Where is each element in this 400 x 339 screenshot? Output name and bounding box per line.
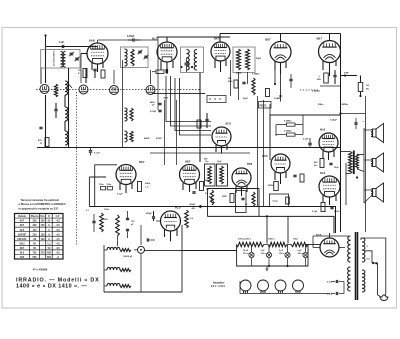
- svg-text:125 α: 125 α: [298, 253, 304, 255]
- pilot lamp LP4: [303, 245, 308, 258]
- svg-text:0,1MΩα: 0,1MΩα: [252, 74, 260, 76]
- small parts mid: [234, 80, 246, 88]
- svg-text:0,25µF: 0,25µF: [330, 120, 338, 122]
- capacitor C18: [289, 74, 292, 88]
- note under table: [32, 268, 48, 272]
- svg-text:lampadine: lampadine: [213, 283, 225, 285]
- power transformer T6 primary: [348, 267, 351, 291]
- tube U6 pins: [216, 144, 227, 154]
- svg-text:6AF/6F: 6AF/6F: [18, 233, 27, 236]
- ground arrow: [266, 266, 269, 270]
- svg-text:550: 550: [33, 256, 38, 259]
- parts below U13: [321, 203, 334, 212]
- resistor R7 arrow: [344, 73, 349, 75]
- wire rotor to heater: [145, 249, 183, 251]
- wire ballast joins: [264, 244, 291, 246]
- osc coupling parts: [197, 113, 209, 128]
- labels below U13: [312, 211, 340, 213]
- wire osc col: [64, 95, 66, 131]
- main bus wire (chassis): [37, 147, 341, 149]
- wire plug drop: [378, 294, 386, 297]
- capacitor C20 0.1uF: [89, 148, 101, 156]
- svg-text:0,1µF: 0,1µF: [312, 211, 318, 213]
- wire dial lamps top: [239, 281, 241, 294]
- labels left of U7: [99, 184, 113, 190]
- svg-text:0,05µF: 0,05µF: [150, 111, 157, 113]
- capacitor C12: [150, 110, 162, 113]
- junction dots T1: [180, 66, 193, 68]
- svg-text:50pF: 50pF: [243, 98, 249, 100]
- svg-text:6AT/2AF: 6AT/2AF: [17, 238, 27, 241]
- tube U8 6B7: [180, 160, 200, 185]
- svg-text:100: 100: [41, 224, 46, 227]
- label above U12: [330, 118, 358, 129]
- wire lamp stubs: [252, 258, 306, 266]
- wire U4 pin drops: [274, 70, 282, 102]
- svg-text:1050 α: 1050 α: [268, 239, 275, 241]
- svg-text:-4,5: -4,5: [56, 252, 61, 255]
- tuning capacitor section CV3: [110, 86, 119, 95]
- wire r20 corners: [276, 115, 303, 136]
- capacitor C15: [147, 238, 155, 241]
- terminal strip: [207, 96, 226, 103]
- band coil L9: [107, 247, 131, 251]
- trimmer C2: [75, 57, 80, 61]
- wire band vertical: [134, 250, 141, 292]
- svg-text:6L6: 6L6: [20, 252, 25, 255]
- tube U2 pins: [161, 61, 173, 74]
- svg-text:0,05µF: 0,05µF: [127, 35, 135, 38]
- capacitor C16 0.1: [327, 280, 344, 284]
- svg-text:750α: 750α: [293, 239, 299, 241]
- svg-text:230: 230: [33, 224, 38, 227]
- svg-text:~: ~: [363, 120, 365, 124]
- svg-text:1Ω: 1Ω: [366, 85, 369, 87]
- svg-text:0,1µF: 0,1µF: [303, 139, 309, 141]
- svg-text:5,1Pα: 5,1Pα: [334, 211, 340, 213]
- wire corner b: [89, 177, 106, 207]
- piezo jack box: [259, 102, 272, 109]
- junction dots ballast: [268, 265, 289, 267]
- svg-text:-4,5: -4,5: [56, 229, 61, 232]
- wire antenna down: [45, 47, 47, 84]
- speaker wires: [364, 128, 371, 203]
- tube U9 pins: [236, 185, 247, 196]
- detector shield box: [208, 189, 260, 217]
- svg-text:-4,5: -4,5: [56, 233, 61, 236]
- svg-text:100: 100: [41, 220, 46, 223]
- svg-text:100: 100: [41, 238, 46, 241]
- power transformer T6 secondary: [362, 270, 365, 292]
- labels near piezo: [243, 98, 281, 100]
- tube U13 6L6 lower: [319, 171, 340, 197]
- tube U4 pins: [275, 61, 286, 74]
- svg-text:6K7: 6K7: [214, 37, 220, 41]
- parts below U8: [192, 180, 209, 193]
- wire heater vertical 2: [287, 216, 289, 243]
- wire u12 top: [340, 114, 342, 134]
- stepped wire 1: [166, 76, 211, 122]
- wire rect top: [313, 236, 349, 248]
- oscillator coil L4: [65, 107, 68, 121]
- svg-text:K: K: [48, 215, 50, 218]
- svg-text:-4,5: -4,5: [56, 242, 61, 245]
- svg-text:6L6: 6L6: [320, 128, 326, 132]
- tube U12 6L6 upper: [319, 128, 338, 153]
- svg-text:6B7: 6B7: [185, 160, 191, 164]
- note text line1: [21, 198, 60, 202]
- resistor R12: [266, 89, 270, 97]
- band coil L11: [107, 283, 131, 287]
- labels left avc: [86, 208, 109, 212]
- svg-text:Tensioni misurate fra elettrod: Tensioni misurate fra elettrodi: [21, 198, 60, 202]
- antenna coil L2: [63, 52, 65, 68]
- tube U11 6C5: [161, 206, 181, 232]
- wire 6A8 grid drop: [80, 54, 82, 84]
- wire h153: [150, 152, 250, 154]
- power transformer core: [356, 232, 358, 300]
- detector inner loop: [236, 191, 247, 213]
- svg-text:405: 405: [47, 252, 52, 255]
- wire 6L7 top: [157, 37, 230, 42]
- IF transformer T3 box A: [205, 161, 216, 186]
- labels mid2: [228, 77, 233, 83]
- label 650: [204, 159, 208, 161]
- wire T3 top: [199, 155, 201, 162]
- wire left vertical a: [68, 68, 70, 148]
- coil block box: [41, 50, 80, 69]
- svg-text:270: 270: [41, 252, 46, 255]
- svg-text:230: 230: [33, 233, 38, 236]
- arrow on bus: [199, 205, 203, 208]
- stepped wire 4: [180, 78, 212, 135]
- wire T4 conn: [341, 152, 365, 206]
- ballast enclosure: [237, 245, 308, 267]
- capacitor C21: [166, 69, 168, 73]
- labels mid1: [236, 73, 260, 76]
- wire band top: [140, 225, 142, 245]
- svg-text:150α: 150α: [107, 184, 112, 186]
- svg-text:20Kα: 20Kα: [145, 183, 151, 185]
- parts below U9: [230, 192, 255, 206]
- wire mid verticals 2: [122, 60, 124, 148]
- tube U6 6C5: [212, 122, 231, 147]
- svg-text:1MΩ: 1MΩ: [103, 219, 108, 221]
- pilot lamp LP1: [243, 245, 254, 258]
- tube U7 6K7: [116, 160, 145, 185]
- IF T3 primary: [208, 166, 212, 184]
- svg-text:10000 pF: 10000 pF: [123, 256, 133, 258]
- wire U5 bottom join: [320, 85, 341, 87]
- tube U1 pins: [92, 63, 103, 72]
- IF T3 secondary: [220, 166, 224, 184]
- wire left vertical c: [45, 95, 47, 148]
- wire right mid h: [339, 112, 365, 114]
- tube U14 wires: [313, 233, 345, 248]
- IF T2 secondary: [246, 49, 250, 70]
- resistor R16: [185, 210, 194, 228]
- antenna terminal node: [44, 34, 46, 46]
- wire avc branch: [341, 74, 358, 76]
- wire heater vertical 1: [266, 216, 268, 243]
- title line1: [16, 278, 100, 284]
- label bk: [318, 104, 349, 106]
- svg-text:STB: STB: [344, 73, 349, 75]
- trimmer C8: [144, 55, 149, 59]
- dial lamp LD3: [275, 280, 286, 293]
- resistor R5 zigzag: [131, 49, 134, 66]
- trimmer C7: [138, 50, 143, 54]
- svg-text:MΩ: MΩ: [317, 79, 321, 81]
- svg-text:S.G.: S.G.: [40, 215, 45, 218]
- rf coil L6: [125, 49, 128, 66]
- svg-text:6 µF: 6 µF: [59, 41, 65, 44]
- capacitor C11: [150, 102, 162, 107]
- antenna coil L1: [61, 52, 63, 68]
- resistor R8 1M: [358, 76, 369, 98]
- tube U9 6T8: [232, 162, 253, 187]
- tuning capacitor section CV2: [79, 85, 88, 94]
- resistor R13 zz: [252, 78, 255, 95]
- svg-text:5Y3: 5Y3: [316, 233, 322, 237]
- wire T2 coil drops: [239, 72, 248, 100]
- svg-text:25µF: 25µF: [334, 167, 339, 169]
- svg-text:0,1µα: 0,1µα: [273, 201, 279, 203]
- wire y93: [152, 93, 205, 95]
- svg-text:6A5: 6A5: [262, 154, 268, 158]
- dotted avc line: [300, 89, 318, 91]
- resistor R23 flat: [152, 70, 164, 73]
- wire corner a: [95, 165, 117, 207]
- tube U4 6Q7: [265, 38, 291, 63]
- resistor R6 1M: [317, 73, 328, 83]
- resistor R3 zigzag: [54, 84, 57, 97]
- wire osc bottom: [41, 147, 86, 149]
- wire cap to 6L7: [98, 40, 159, 44]
- label 8MA: [312, 91, 321, 93]
- svg-text:6,3 V - 0,15 A: 6,3 V - 0,15 A: [211, 285, 225, 288]
- svg-text:50Kα: 50Kα: [318, 104, 324, 106]
- svg-text:550: 550: [47, 256, 52, 259]
- wire sec to plug: [361, 238, 386, 295]
- padder capacitor C4: [54, 103, 57, 118]
- wire U4 top: [280, 34, 282, 42]
- wire box left drop: [40, 68, 42, 84]
- tube U5 6B7: [317, 37, 341, 63]
- capacitor C17 0.1: [327, 292, 344, 296]
- svg-text:700: 700: [33, 252, 38, 255]
- ballast label1: [238, 239, 252, 241]
- svg-text:2MΩα: 2MΩα: [268, 185, 275, 187]
- svg-text:in apparecchio eseguite su E.P: in apparecchio eseguite su E.P.: [19, 206, 59, 210]
- IF transformer T2 box: [233, 47, 255, 73]
- svg-text:-47 e 450896: -47 e 450896: [32, 268, 48, 272]
- pilot lamp LP3: [279, 245, 290, 258]
- speaker SP2: [371, 153, 384, 172]
- IF T1 secondary: [194, 50, 197, 71]
- label 500pF: [190, 204, 197, 210]
- svg-text:50pF: 50pF: [256, 58, 262, 60]
- oscillator coil L3: [65, 81, 72, 95]
- resistor R1 15K: [78, 69, 87, 78]
- dial lamp LD4: [293, 280, 304, 293]
- speaker SP3: [371, 183, 384, 202]
- svg-text:0,1µF: 0,1µF: [117, 194, 123, 196]
- capacitor 6uF antenna: [59, 41, 65, 48]
- svg-text:0,5MΩα: 0,5MΩα: [340, 104, 349, 106]
- wire antenna to input coils: [46, 46, 98, 48]
- resistor R9 zz: [130, 108, 133, 121]
- svg-text:5Z3: 5Z3: [20, 256, 25, 259]
- dial lamp LD2: [258, 280, 269, 293]
- third bus wire: [208, 216, 335, 233]
- potentiometer R22: [205, 190, 215, 205]
- capacitor C9 label: [256, 58, 262, 60]
- svg-text:0,5MΩα: 0,5MΩα: [284, 131, 292, 133]
- stepped wire 2: [171, 76, 212, 126]
- capacitor C10: [333, 70, 336, 84]
- note text line3: [19, 206, 59, 210]
- left avc parts: [92, 213, 103, 232]
- ballast label3: [293, 239, 299, 241]
- tube U1 6A8: [87, 39, 108, 65]
- svg-text:-4,5: -4,5: [56, 220, 61, 223]
- svg-text:6L5: 6L5: [20, 229, 25, 232]
- output transformer T4: [349, 151, 359, 175]
- svg-text:100: 100: [41, 233, 46, 236]
- svg-text:78 µF: 78 µF: [243, 250, 249, 252]
- wire dial lamps bottom: [240, 291, 330, 294]
- wire B+ vertical: [340, 34, 342, 233]
- 6A5 cathode box: [270, 194, 290, 207]
- svg-text:6A7: 6A7: [20, 220, 25, 223]
- resistor R14 20K: [138, 182, 152, 192]
- svg-text:6K7: 6K7: [139, 160, 145, 164]
- resistor R11 zz: [130, 131, 133, 142]
- wire left vertical b: [85, 68, 87, 83]
- trimmer C1: [69, 52, 74, 56]
- svg-text:1075+1250 α: 1075+1250 α: [238, 239, 252, 241]
- capacitor C13 label: [117, 194, 123, 196]
- IF transformer T3 box B: [217, 161, 228, 186]
- tuning capacitor section CV4: [146, 86, 155, 95]
- labels below U9: [222, 196, 248, 206]
- svg-text:1 w: 1 w: [145, 187, 149, 189]
- pilot lamp LP4 labels: [298, 250, 304, 255]
- capacitor C6 0.05uF: [127, 35, 140, 42]
- resistor R21 box: [284, 131, 295, 137]
- label tilde: [363, 120, 365, 124]
- ballast resistor RB1: [236, 242, 264, 246]
- dial lamp LD1: [240, 280, 251, 293]
- volume pot R17: [116, 215, 120, 246]
- svg-text:490Ω: 490Ω: [144, 137, 150, 140]
- coil L8: [125, 131, 128, 142]
- voltage table: [15, 214, 64, 260]
- svg-text:-4,5: -4,5: [56, 238, 61, 241]
- switch rotor: [138, 246, 145, 253]
- IF transformer T1 box: [181, 47, 204, 73]
- svg-text:0,5MΩα: 0,5MΩα: [312, 91, 321, 93]
- svg-text:6K7: 6K7: [20, 247, 25, 250]
- svg-text:6B7: 6B7: [265, 38, 271, 42]
- svg-text:470Ω: 470Ω: [156, 137, 162, 140]
- svg-text:110: 110: [33, 229, 38, 232]
- wire band to right: [104, 225, 182, 292]
- wire cap stubs: [331, 282, 344, 294]
- tube U7 pins: [120, 182, 132, 193]
- svg-text:450pF: 450pF: [146, 212, 153, 215]
- IF T2 primary: [237, 49, 241, 70]
- wire mid verticals right: [258, 96, 271, 207]
- wire mid verticals group: [165, 100, 177, 165]
- trimmer C22: [185, 58, 189, 72]
- tube U14 5Y3: [316, 233, 339, 257]
- mains plug P1: [380, 295, 388, 301]
- ballast resistor RB2: [268, 242, 287, 246]
- tuning capacitor section CV1: [40, 85, 49, 94]
- svg-text:Valvole: Valvole: [18, 216, 27, 218]
- band label vertical: [53, 49, 56, 66]
- svg-text:1MΩ: 1MΩ: [222, 196, 227, 198]
- svg-text:Ant 550-1600 kc: Ant 550-1600 kc: [53, 49, 56, 66]
- resistor R2 box: [101, 70, 105, 78]
- power transformer T5 secondary: [362, 238, 365, 262]
- wire ballast to rect: [305, 244, 320, 246]
- tube U3 6K7: [211, 37, 230, 62]
- svg-text:-4,5: -4,5: [56, 247, 61, 250]
- svg-text:6C5: 6C5: [226, 122, 232, 126]
- wire top bus right: [220, 34, 341, 43]
- resistor R15: [268, 182, 278, 191]
- resistor R20 box: [284, 121, 295, 127]
- transformer labels: [367, 246, 371, 261]
- svg-text:6K7: 6K7: [20, 224, 25, 227]
- svg-text:-4,5: -4,5: [56, 224, 61, 227]
- resistor R10 labels: [144, 137, 162, 140]
- power transformer T5 primary: [348, 236, 351, 262]
- tube U11 pins: [165, 229, 178, 242]
- oscillator coil L5: [65, 131, 68, 145]
- svg-text:0,5MΩ: 0,5MΩ: [274, 98, 281, 100]
- coil L7: [125, 108, 128, 121]
- resistor R4 470: [38, 138, 49, 147]
- ballast label2: [268, 239, 275, 241]
- svg-text:Placca: Placca: [31, 215, 39, 218]
- svg-text:500pF: 500pF: [190, 204, 197, 206]
- label 50uF: [164, 98, 170, 100]
- wire 6A8 grid left: [81, 53, 87, 55]
- note text line2: [19, 202, 66, 206]
- svg-text:PIEZO: PIEZO: [260, 105, 267, 107]
- svg-text:100α: 100α: [99, 184, 104, 186]
- tube U10 pins: [275, 171, 286, 184]
- parts right U10: [293, 174, 304, 182]
- svg-text:6B7: 6B7: [317, 37, 323, 41]
- svg-text:6L6: 6L6: [320, 171, 326, 175]
- svg-text:125 α: 125 α: [261, 253, 267, 255]
- IF T1 primary: [187, 50, 190, 71]
- coupling loop wire: [270, 115, 341, 160]
- wire vc3 stub: [114, 70, 151, 84]
- svg-text:C.F: C.F: [56, 215, 60, 218]
- svg-text:6A8: 6A8: [89, 39, 95, 43]
- title line2: [16, 283, 87, 289]
- wire U5 top: [329, 34, 331, 41]
- svg-text:10µF: 10µF: [217, 161, 222, 163]
- capacitor C19 0.1uF: [303, 138, 312, 148]
- svg-text:0,5MΩα: 0,5MΩα: [284, 121, 292, 123]
